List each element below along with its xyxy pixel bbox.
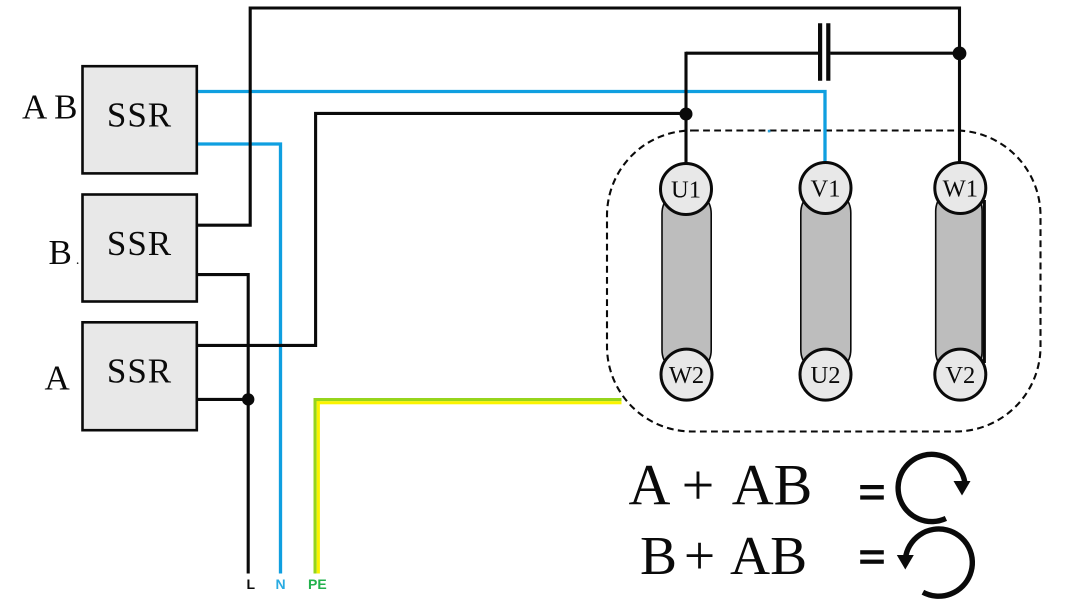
svg-text:A B: A B: [22, 88, 77, 127]
winding bar W1-V2: [936, 188, 982, 375]
junction dot above W1: [953, 47, 967, 61]
svg-text:SSR: SSR: [107, 96, 172, 135]
terminal U1: [661, 164, 712, 215]
svg-text:SSR: SSR: [107, 352, 172, 391]
wire PE green-yellow horizontal to motor: [314, 398, 622, 404]
wire PE green-yellow vertical: [314, 398, 320, 574]
wire from SSR A bottom output to L junction: [197, 398, 249, 401]
SSR U2 box (B relay): [83, 195, 197, 302]
svg-text:SSR: SSR: [107, 224, 172, 263]
terminal W2: [661, 349, 712, 400]
svg-text:A: A: [45, 358, 71, 397]
svg-text:W1: W1: [943, 176, 978, 203]
winding bar U1-W2: [662, 189, 711, 375]
wire black loop from SSR B top output up over the top to W1: [197, 8, 960, 225]
junction dot above U1: [680, 108, 693, 121]
motor boundary dashed outline: [607, 131, 1041, 432]
wire from SSR A top output up and right to node above U1: [197, 113, 686, 345]
svg-text:U1: U1: [671, 177, 701, 204]
junction dot at SSR A bottom output: [242, 393, 254, 405]
wire blue from SSR AB top output to V1: [198, 92, 825, 163]
svg-text:PE: PE: [308, 576, 327, 592]
wire black along right edge of W1-V2 winding: [983, 200, 986, 363]
svg-text:V1: V1: [811, 176, 841, 203]
wire blue from SSR AB bottom output down to N: [198, 144, 281, 574]
svg-text:U2: U2: [811, 362, 841, 389]
terminal W1: [935, 163, 986, 214]
svg-text:B + AB: B + AB: [640, 526, 807, 587]
equals sign row 1: [860, 485, 884, 500]
counter-clockwise rotation arrow: [897, 529, 973, 596]
capacitor C1 plates: [820, 23, 828, 81]
svg-text:N: N: [276, 576, 286, 592]
svg-text:A + AB: A + AB: [629, 453, 813, 518]
wire vertical feed into terminal U1: [684, 52, 687, 164]
svg-text:V2: V2: [945, 362, 975, 389]
stray blue mark on dashed outline: [768, 130, 771, 133]
equals sign row 2: [860, 550, 884, 564]
winding bar V1-U2: [801, 188, 851, 375]
terminal U2: [800, 349, 851, 400]
svg-text:L: L: [247, 576, 256, 592]
SSR U3 box (A relay): [83, 322, 197, 430]
wire capacitor left segment from node above U1: [686, 52, 818, 55]
terminal V2: [935, 349, 986, 400]
SSR U1 box (A B relay): [83, 66, 197, 173]
svg-text:W2: W2: [669, 362, 704, 389]
wire from SSR B bottom output down to L: [197, 275, 248, 574]
terminal V1: [800, 163, 851, 214]
wire capacitor right segment to junction above W1: [830, 52, 959, 55]
clockwise rotation arrow: [898, 454, 970, 521]
